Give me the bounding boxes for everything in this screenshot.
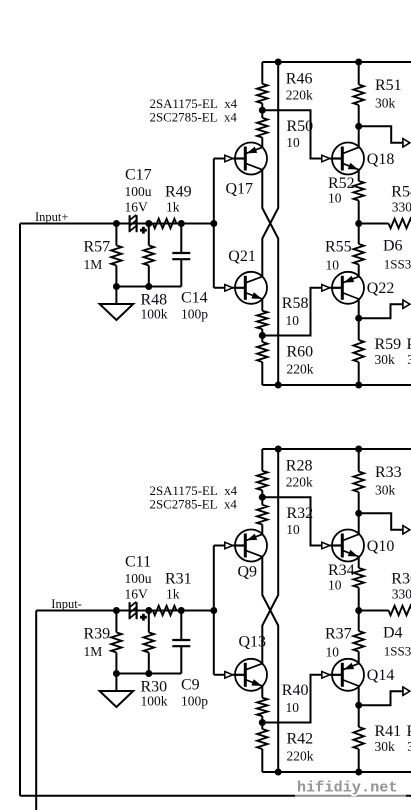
svg-text:R58: R58: [282, 295, 309, 312]
resistor R32 10: [261, 497, 263, 505]
svg-text:Q22: Q22: [367, 280, 395, 297]
svg-text:220k: 220k: [287, 362, 314, 377]
node junction R51/Q18 collector: [355, 123, 362, 130]
svg-text:10: 10: [286, 522, 300, 537]
svg-text:R54: R54: [391, 183, 411, 200]
node junction R57 top: [113, 220, 120, 227]
svg-text:R46: R46: [286, 71, 313, 88]
node junction R39 top: [113, 607, 120, 614]
svg-text:Q17: Q17: [226, 180, 254, 197]
node junction C11 right / R30 top: [145, 607, 152, 614]
resistor R59 30k: [358, 318, 360, 340]
wire Input- left vertical return: [35, 611, 37, 810]
wire top supply rail: [262, 448, 411, 450]
resistor R51 30k: [358, 62, 360, 85]
resistor R48 100k: [148, 224, 150, 246]
wire Q18 collector: [358, 126, 360, 147]
svg-text:10: 10: [328, 578, 342, 593]
node junction top rail / R51: [355, 59, 362, 66]
wire bottom supply rail: [262, 771, 411, 773]
resistor R54 330 (clipped at edge): [359, 223, 389, 225]
svg-text:10: 10: [286, 313, 300, 328]
svg-text:100k: 100k: [141, 306, 168, 321]
wire off-page stub bottom: [359, 691, 403, 705]
node junction R40/R42: [259, 719, 266, 726]
svg-text:100u: 100u: [125, 184, 152, 199]
node junction ground rail at R30: [145, 670, 152, 677]
transistor Q21 NPN: [235, 272, 267, 304]
wire base of Q13: [214, 674, 235, 676]
svg-text:1SS33: 1SS33: [384, 643, 411, 658]
svg-text:30k: 30k: [375, 352, 396, 367]
wire off-page stub top: [359, 126, 403, 143]
svg-text:C11: C11: [125, 553, 151, 570]
resistor R52 10: [358, 170, 360, 181]
svg-text:30k: 30k: [375, 96, 396, 111]
svg-text:330: 330: [392, 199, 411, 214]
wire Input+ input horizontal: [20, 223, 214, 225]
svg-text:R6: R6: [407, 336, 411, 353]
wire bottom supply rail: [262, 384, 411, 386]
wire top supply rail: [262, 61, 411, 63]
node junction R31 right / C9 top: [178, 607, 185, 614]
svg-text:1M: 1M: [84, 257, 103, 272]
resistor R42 220k: [261, 723, 263, 730]
wire base junction vertical: [213, 546, 215, 675]
wire Q17 collector to bottom rail (crossover): [262, 170, 278, 385]
svg-text:2SC2785-EL x4: 2SC2785-EL x4: [150, 497, 238, 511]
resistor R34 10: [358, 557, 360, 568]
svg-text:30k: 30k: [375, 739, 396, 754]
svg-text:Input+: Input+: [35, 210, 68, 224]
svg-text:10: 10: [286, 700, 300, 715]
wire Input+ left vertical return: [19, 224, 21, 796]
resistor R31 1k: [149, 610, 153, 612]
node junction R49 right / C14 top: [178, 220, 185, 227]
resistor R49 1k: [149, 223, 153, 225]
svg-text:1k: 1k: [166, 199, 180, 214]
wire Q22 collector: [358, 299, 360, 318]
svg-text:R41: R41: [375, 723, 402, 740]
wire R28/R32 junction to Q10 base: [262, 497, 332, 545]
svg-text:R49: R49: [165, 184, 192, 201]
wire local ground rail: [116, 673, 181, 675]
capacitor C11 electrolytic 100u 16V: [116, 610, 129, 612]
wire off-page stub top: [359, 513, 403, 530]
node junction base line: [210, 220, 217, 227]
node junction R33/Q10 collector: [355, 510, 362, 517]
svg-text:10: 10: [326, 644, 340, 659]
svg-text:100p: 100p: [181, 306, 208, 321]
wire off-page stub bottom: [359, 304, 403, 318]
node junction bottom rail / R41: [355, 769, 362, 776]
transistor Q13 NPN: [235, 659, 267, 691]
resistor R50 10: [261, 110, 263, 118]
capacitor C14 100p: [180, 224, 182, 254]
svg-text:2SC2785-EL x4: 2SC2785-EL x4: [150, 110, 238, 124]
svg-text:R50: R50: [287, 118, 314, 135]
ground: [115, 287, 117, 304]
svg-text:R60: R60: [287, 344, 314, 361]
svg-text:16V: 16V: [125, 586, 149, 601]
wire R46/R50 junction to Q18 base: [262, 110, 332, 158]
ground: [115, 674, 117, 691]
node junction Q14 collector/R41: [355, 702, 362, 709]
node junction ground rail at R57: [113, 283, 120, 290]
node junction ground rail at R48: [145, 283, 152, 290]
svg-text:100p: 100p: [181, 693, 208, 708]
node junction Q22 collector/R59: [355, 315, 362, 322]
wire base of Q17: [214, 158, 235, 160]
resistor R41 30k: [358, 705, 360, 727]
svg-text:3: 3: [407, 739, 411, 754]
node junction C17 right / R48 top: [145, 220, 152, 227]
svg-text:R52: R52: [328, 175, 355, 192]
wire Q9 collector to bottom rail (crossover): [262, 557, 278, 772]
svg-text:hifidiy.net: hifidiy.net: [297, 779, 398, 796]
svg-text:Q18: Q18: [367, 151, 395, 168]
svg-text:220k: 220k: [286, 475, 313, 490]
svg-text:D4: D4: [383, 625, 403, 642]
wire top rail to Q13 collector (crossover): [262, 449, 278, 664]
svg-text:R51: R51: [375, 77, 402, 94]
node junction top rail / R33: [355, 446, 362, 453]
svg-text:R28: R28: [286, 458, 313, 475]
wire Input- input horizontal: [36, 610, 214, 612]
svg-text:Q14: Q14: [367, 667, 395, 684]
svg-text:30k: 30k: [375, 483, 396, 498]
transistor Q18 NPN: [332, 143, 364, 175]
resistor R40 10: [261, 686, 263, 698]
svg-text:R34: R34: [328, 562, 355, 579]
svg-text:10: 10: [326, 257, 340, 272]
svg-text:Q10: Q10: [367, 538, 395, 555]
svg-text:2SA1175-EL x4: 2SA1175-EL x4: [150, 484, 238, 498]
svg-text:R39: R39: [84, 626, 111, 643]
wire R58/R60 junction to Q22 base: [262, 288, 332, 336]
node junction R52/R55/R54: [355, 220, 362, 227]
svg-text:Q21: Q21: [228, 248, 256, 265]
svg-text:R36: R36: [391, 570, 411, 587]
svg-text:R31: R31: [165, 571, 192, 588]
svg-text:100u: 100u: [125, 571, 152, 586]
svg-text:Input-: Input-: [51, 597, 82, 611]
node junction bottom rail / crossover: [275, 382, 282, 389]
wire base junction vertical: [213, 159, 215, 288]
wire R40/R42 junction to Q14 base: [262, 675, 332, 723]
resistor R46 220k: [261, 62, 263, 84]
resistor R36 330 (clipped at edge): [359, 610, 389, 612]
node junction R34/R37/R36: [355, 607, 362, 614]
node junction bottom rail / R59: [355, 382, 362, 389]
wire local ground rail: [116, 286, 181, 288]
resistor R57 1M: [115, 224, 117, 246]
resistor R58 10: [261, 299, 263, 311]
svg-text:220k: 220k: [286, 88, 313, 103]
transistor Q10 NPN: [332, 530, 364, 562]
transistor Q22 PNP: [332, 272, 364, 304]
svg-text:1SS33: 1SS33: [384, 256, 411, 271]
svg-text:R40: R40: [282, 682, 309, 699]
wire Q10 collector: [358, 513, 360, 534]
node junction R28/R32: [259, 494, 266, 501]
wire faded segment under watermark: [295, 794, 406, 797]
node junction top rail / crossover: [275, 446, 282, 453]
resistor R37 10: [358, 611, 360, 632]
wire Input+ bottom return horizontal: [20, 795, 411, 797]
svg-text:C9: C9: [181, 676, 200, 693]
svg-text:10: 10: [328, 191, 342, 206]
resistor R30 100k: [148, 611, 150, 633]
svg-text:R59: R59: [375, 336, 402, 353]
svg-text:C17: C17: [125, 166, 152, 183]
svg-text:R32: R32: [287, 505, 314, 522]
node junction R58/R60: [259, 332, 266, 339]
svg-text:R57: R57: [84, 239, 111, 256]
wire base of Q9: [214, 545, 235, 547]
resistor R60 220k: [261, 336, 263, 343]
node junction base line: [210, 607, 217, 614]
svg-text:3: 3: [407, 352, 411, 367]
node junction bottom rail / crossover: [275, 769, 282, 776]
svg-text:R33: R33: [375, 464, 402, 481]
wire base of Q21: [214, 287, 235, 289]
svg-text:1k: 1k: [166, 586, 180, 601]
node junction top rail / crossover: [275, 59, 282, 66]
svg-text:10: 10: [286, 135, 300, 150]
svg-text:R42: R42: [287, 731, 314, 748]
resistor R33 30k: [358, 449, 360, 472]
svg-text:Q9: Q9: [238, 564, 258, 581]
svg-text:2SA1175-EL x4: 2SA1175-EL x4: [150, 97, 238, 111]
wire top rail to Q21 collector (crossover): [262, 62, 278, 277]
node junction R46/R50: [259, 107, 266, 114]
svg-text:R37: R37: [325, 625, 352, 642]
wire Q14 collector: [358, 686, 360, 705]
svg-text:1M: 1M: [84, 644, 103, 659]
svg-text:100k: 100k: [141, 693, 168, 708]
node junction ground rail at R39: [113, 670, 120, 677]
capacitor C9 100p: [180, 611, 182, 641]
transistor Q9 PNP: [235, 530, 267, 562]
svg-text:330: 330: [392, 586, 411, 601]
resistor R39 1M: [115, 611, 117, 633]
svg-text:R55: R55: [325, 238, 352, 255]
transistor Q17 PNP: [235, 143, 267, 175]
svg-text:16V: 16V: [125, 199, 149, 214]
svg-text:D6: D6: [383, 238, 403, 255]
svg-text:R6: R6: [407, 723, 411, 740]
svg-text:220k: 220k: [287, 749, 314, 764]
resistor R55 10: [358, 224, 360, 245]
transistor Q14 PNP: [332, 659, 364, 691]
resistor R28 220k: [261, 449, 263, 471]
svg-text:C14: C14: [181, 289, 208, 306]
capacitor C17 electrolytic 100u 16V: [116, 223, 129, 225]
